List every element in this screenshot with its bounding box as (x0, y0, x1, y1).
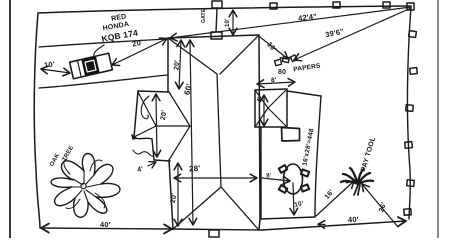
dim 20 feet upper-left (179, 40, 181, 89)
fence post right 5 (405, 142, 412, 149)
svg-text:80: 80 (278, 69, 286, 76)
dim 42ft4in line (170, 7, 411, 38)
chair 2 (301, 169, 309, 176)
dim 4 feet wing (148, 162, 156, 166)
palm plant (341, 168, 373, 195)
boundary top (38, 6, 411, 13)
wing diagonal b (134, 126, 156, 137)
wing bottom edge (154, 160, 170, 161)
svg-text:20': 20' (131, 38, 143, 49)
svg-text:OAK: OAK (49, 152, 61, 167)
wing squiggle (141, 96, 149, 119)
label PAY TOOL (360, 136, 377, 173)
wing top edge (138, 91, 169, 92)
right wing diagonal 4 (255, 108, 268, 127)
roof diagonal bottom-left (173, 187, 221, 229)
svg-text:TREE: TREE (62, 145, 76, 163)
svg-text:20': 20' (170, 193, 179, 204)
patio top edge (287, 91, 321, 96)
label 16x28=448 (301, 128, 315, 167)
dim 60 feet (190, 40, 193, 225)
svg-text:10': 10' (294, 200, 305, 209)
label 40 feet left (100, 220, 111, 229)
oak tree inner arcs (64, 159, 105, 209)
car label leader (94, 45, 104, 56)
right wing diagonal 1 (255, 90, 268, 108)
fence post top 3 (383, 2, 390, 8)
dim 28 feet (174, 177, 257, 179)
roof diagonal top-left (168, 38, 217, 74)
roof diagonal top-right (220, 35, 259, 74)
dim 20 feet wing (156, 94, 157, 157)
wing ridge (156, 125, 190, 127)
svg-text:4': 4' (137, 166, 144, 174)
right wing diagonal 3 (268, 108, 287, 127)
dim 26 feet palm (362, 184, 398, 227)
patio right edge (315, 96, 321, 217)
svg-text:8': 8' (271, 77, 277, 84)
dim 20 feet lower-left (177, 163, 179, 226)
svg-text:16': 16' (265, 41, 277, 53)
svg-text:40': 40' (100, 220, 111, 229)
label 80 papers (278, 63, 322, 76)
fence post right 7 (404, 209, 411, 215)
fence post right 2 (409, 31, 417, 38)
label 40 feet right (348, 215, 359, 225)
svg-text:40': 40' (348, 215, 359, 225)
fence post top 2 (333, 2, 340, 8)
dim 16 feet palm (316, 181, 354, 216)
svg-text:10': 10' (44, 59, 56, 69)
dim 20 feet car to corner (112, 39, 167, 66)
svg-text:20': 20' (173, 60, 181, 71)
oak tree center (81, 183, 86, 188)
patio left edge (260, 128, 262, 219)
car (70, 53, 113, 79)
wing mid vertical (152, 139, 154, 160)
label RED HONDA KQB 174 (98, 12, 139, 44)
house right wall (259, 35, 260, 230)
boundary left (34, 13, 40, 228)
svg-text:PAPERS: PAPERS (293, 63, 322, 74)
page right edge line (437, 0, 439, 238)
wing left edge (134, 91, 138, 137)
svg-text:28': 28' (189, 164, 201, 174)
svg-text:4': 4' (256, 96, 264, 103)
svg-text:39'6": 39'6" (324, 27, 345, 40)
roof ridge (217, 74, 221, 187)
house left wall lower (169, 160, 173, 229)
house left wall upper (167, 38, 169, 92)
wing diagonal a (138, 92, 156, 126)
right wing outline (255, 89, 287, 127)
label OAK TREE (49, 145, 75, 168)
bottom boundary left (41, 228, 172, 229)
page left edge line (9, 0, 11, 238)
oak tree spokes (72, 171, 101, 202)
fence post right 3 (410, 68, 418, 75)
chair 1 (279, 165, 288, 173)
table (284, 164, 303, 194)
dim 8 feet wing top (257, 82, 295, 84)
wing lower-left edge (134, 138, 152, 139)
svg-text:42'4": 42'4" (298, 12, 318, 23)
svg-text:10': 10' (225, 18, 231, 27)
road lower line (39, 75, 167, 88)
wing wavy bottom (133, 150, 154, 156)
roof diagonal bottom-right (221, 187, 258, 229)
bottom small square (209, 230, 219, 237)
svg-text:8': 8' (266, 173, 272, 180)
dim 10 feet table (293, 183, 294, 215)
svg-text:PAY TOOL: PAY TOOL (360, 136, 377, 173)
wing corner blob (132, 135, 136, 139)
gate (212, 1, 222, 8)
svg-text:60': 60' (182, 83, 194, 96)
papers (275, 59, 282, 65)
fence post right 4 (406, 105, 413, 112)
bottom edge under house (172, 229, 262, 230)
dim 4 feet right wing (263, 95, 265, 126)
chair 3 (279, 185, 288, 193)
dim 10 feet road (41, 69, 70, 73)
dim 39ft6in line (294, 8, 411, 60)
svg-text:GATE: GATE (201, 8, 207, 23)
svg-text:26': 26' (378, 201, 388, 213)
dim 8 feet table (262, 178, 290, 181)
oak tree crown (51, 153, 120, 217)
right wing diagonal 2 (268, 89, 287, 108)
wing diagonal d (169, 126, 190, 160)
fence post right 6 (407, 180, 415, 187)
wing diagonal c (169, 92, 190, 126)
svg-text:16'x28'=448: 16'x28'=448 (301, 128, 315, 167)
dim 10 feet gate (232, 10, 234, 35)
patio bottom edge (261, 217, 315, 219)
arrowhead mid bottom (318, 223, 325, 225)
house top edge (168, 35, 259, 38)
step rectangle (282, 128, 300, 142)
fence right (407, 7, 411, 219)
svg-text:20': 20' (160, 110, 169, 121)
bottom boundary right (262, 221, 406, 230)
fence post right corner (407, 3, 414, 10)
fence post top 1 (270, 3, 277, 9)
dim 16 feet corner to papers (260, 37, 288, 59)
chair 4 (301, 184, 309, 191)
road upper line (39, 39, 167, 47)
